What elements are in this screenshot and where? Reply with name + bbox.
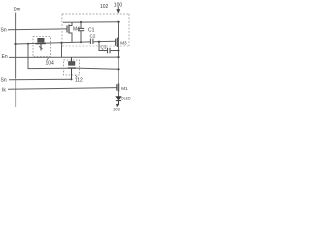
wire line L5 gate of M1 [8,88,117,90]
svg-text:Sn: Sn [1,77,7,83]
wire scan line Sn y~29.5 [8,28,67,31]
wire line L4 y=79.5 [9,78,72,81]
label 112 with leader [76,75,78,77]
svg-text:104: 104 [46,61,55,67]
svg-text:Sn: Sn [1,27,7,33]
label 104 with leader [47,58,49,60]
capacitor C1 [78,22,84,42]
OLED diode [116,97,122,107]
capacitor C3 branch [99,42,119,54]
svg-text:102: 102 [100,4,109,10]
transistor M1 [117,83,119,91]
svg-text:112: 112 [75,77,83,83]
transistor M4 [67,22,72,43]
wire vertical x=61.5 L1 to L2 [61,43,63,58]
svg-text:C1: C1 [88,28,95,34]
wire L3 corner from L1 down to box B [28,44,68,69]
wire power line y=22 [63,21,119,23]
svg-text:100: 100 [114,2,123,8]
svg-text:M1: M1 [121,86,128,91]
svg-text:M4: M4 [73,27,80,33]
svg-text:Dm: Dm [14,6,21,11]
junction dots [14,21,119,81]
transistor M3 [116,38,118,47]
svg-text:103: 103 [113,106,120,111]
svg-text:Ik: Ik [2,87,6,93]
big dashed box 102 [62,14,129,46]
capacitor C2 in-line on L1 [90,39,93,44]
dashed box 112 [64,60,80,75]
wire L6 drain of T-B to right vertical [76,68,119,69]
leader tick under C3 [102,49,104,51]
wire right vertical node [118,22,120,58]
svg-text:C2: C2 [90,34,96,39]
wire line L2 y=57.3 [9,56,119,58]
svg-text:En: En [2,54,8,60]
svg-text:M3: M3 [120,41,127,46]
transistor T-B inside box 112 [68,57,76,79]
wire node line L1 sloped [16,42,91,44]
wire data line Dm vertical [15,13,17,79]
svg-text:C3: C3 [101,45,107,50]
transistor T-A inside box 104 [36,38,47,50]
dashed box 104 [33,37,51,57]
power arrow 100 [117,7,120,13]
svg-text:OLED: OLED [121,96,131,100]
